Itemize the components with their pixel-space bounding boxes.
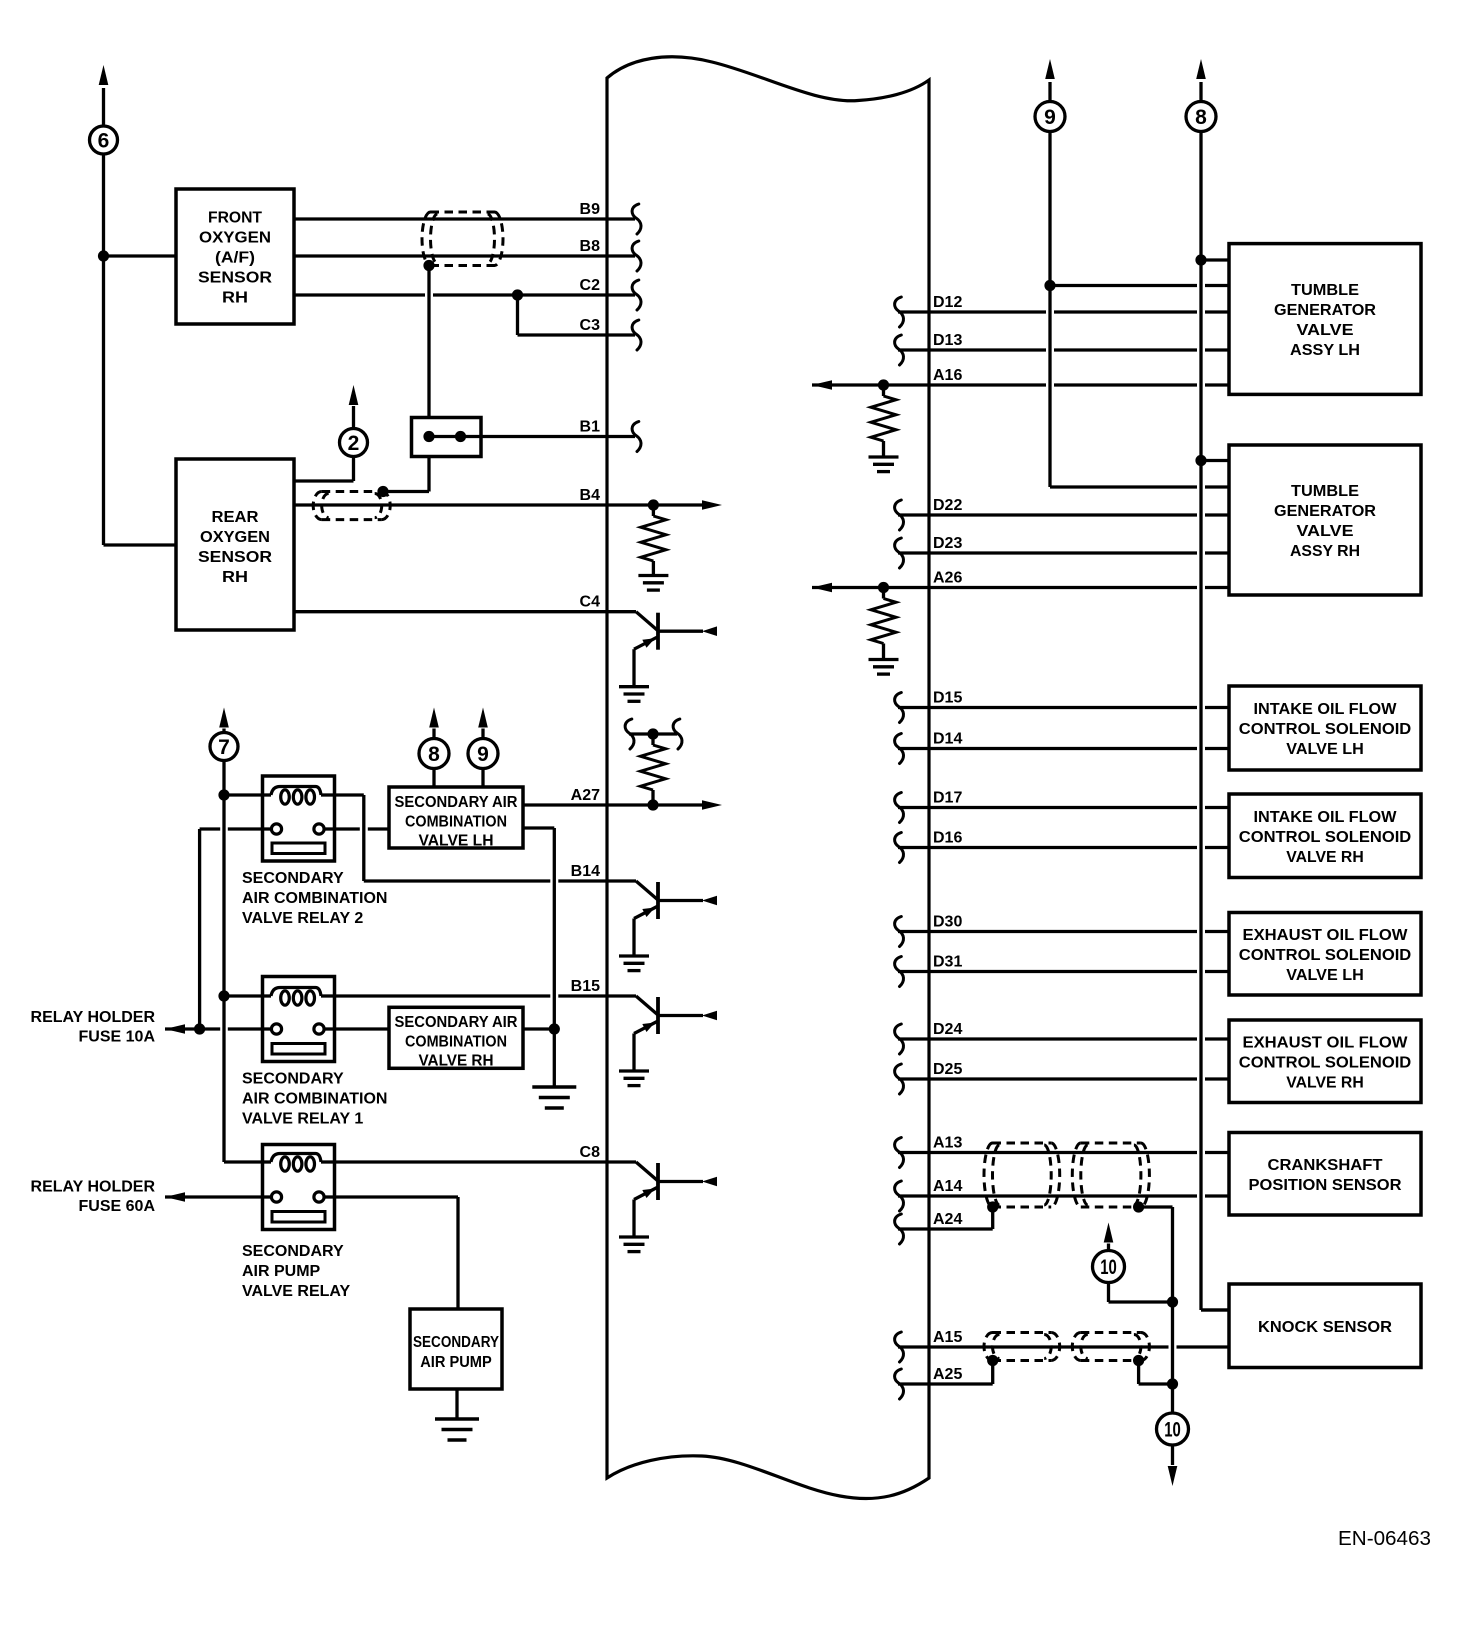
svg-text:10: 10: [1100, 1256, 1117, 1279]
wire relay1 coil to feed: [224, 994, 263, 997]
break mark D12: [895, 297, 904, 327]
ground (air pump): [435, 1419, 479, 1440]
svg-text:COMBINATION: COMBINATION: [405, 814, 507, 831]
break mark D31: [895, 957, 904, 987]
svg-text:VALVE RELAY 2: VALVE RELAY 2: [242, 910, 363, 927]
wire 8-line to knock sensor: [1201, 1308, 1229, 1311]
label INTAKE OIL FLOW CONTROL SOLENOID VALVE LH: [1239, 701, 1412, 758]
break mark D17: [895, 793, 904, 823]
supply line with circled 8: [1201, 82, 1229, 1310]
ground (A16 resistor): [869, 457, 899, 472]
pin label D23: [933, 535, 962, 552]
wire relay2 coil to B14 drop: [335, 795, 364, 881]
svg-text:A15: A15: [933, 1329, 962, 1346]
wire C8 (relay3 coil to ECM): [335, 1160, 637, 1163]
wire D23 (hop): [898, 551, 1229, 554]
break mark A24: [895, 1214, 904, 1244]
svg-text:VALVE RELAY: VALVE RELAY: [242, 1283, 351, 1300]
pin label A14: [933, 1178, 962, 1195]
break mark D15: [895, 693, 904, 723]
node drain to circled 10: [1167, 1296, 1178, 1307]
label TUMBLE GENERATOR VALVE ASSY LH: [1274, 282, 1376, 359]
break mark D23: [895, 538, 904, 568]
box EXHAUST OIL FLOW CONTROL SOLENOID VALVE LH: [1229, 913, 1421, 996]
arrow up (to page 2): [349, 385, 359, 405]
box SECONDARY AIR PUMP: [410, 1309, 502, 1389]
circled 6: [90, 126, 118, 154]
node 9-line to tumble LH: [1044, 280, 1055, 291]
pin label C8: [580, 1144, 601, 1161]
break mark D25: [895, 1064, 904, 1094]
svg-text:D22: D22: [933, 497, 962, 514]
wire C3: [518, 333, 636, 336]
relay SECONDARY AIR PUMP VALVE RELAY: [263, 1145, 335, 1230]
wire B9 (front A/F sensor signal): [294, 217, 635, 220]
ground (B4 resistor): [638, 576, 668, 591]
wire relay holder fuse 10A (hop): [165, 1027, 263, 1030]
svg-text:RELAY HOLDER: RELAY HOLDER: [31, 1179, 156, 1196]
circled 10 (upper): [1093, 1251, 1125, 1283]
wire C2: [294, 293, 635, 296]
wire C4: [294, 610, 636, 613]
supply line with circled 9: [1048, 82, 1051, 487]
label EXHAUST OIL FLOW CONTROL SOLENOID VALVE RH: [1239, 1034, 1412, 1091]
pin label D17: [933, 790, 962, 807]
arrow down (to page 10): [1168, 1466, 1178, 1486]
pin label A15: [933, 1329, 962, 1346]
shield (B9/B8 pair): [422, 212, 503, 266]
wire B15 (relay1 coil to ECM): [335, 994, 637, 997]
svg-text:SECONDARY AIR: SECONDARY AIR: [395, 1014, 518, 1031]
wire 9-line to tumble LH (hop): [1050, 284, 1229, 287]
arrow up (to page 9): [1045, 59, 1055, 79]
pin label B8: [580, 238, 601, 255]
node B4 pull-down: [648, 499, 659, 510]
svg-text:AIR PUMP: AIR PUMP: [420, 1354, 492, 1371]
ground (valve ground rail): [532, 1087, 576, 1108]
wire D25 (hop): [898, 1077, 1229, 1080]
label RELAY HOLDER FUSE 60A: [31, 1179, 156, 1216]
break mark B1: [632, 422, 641, 452]
svg-text:COMBINATION: COMBINATION: [405, 1034, 507, 1051]
svg-text:SECONDARY: SECONDARY: [242, 870, 344, 887]
box TUMBLE GENERATOR VALVE ASSY LH: [1229, 244, 1421, 395]
transistor (B15 driver): [619, 996, 717, 1086]
wire D15 (hop): [898, 706, 1229, 709]
wire REAR sensor to circled 2: [294, 457, 354, 482]
wire B4 (rear O2 signal): [294, 503, 703, 506]
wire A24: [898, 1207, 993, 1229]
arrow right on B4: [702, 500, 722, 510]
wire B14: [364, 879, 636, 882]
pin label D14: [933, 731, 962, 748]
label FRONT OXYGEN (A/F) SENSOR RH: [198, 210, 272, 307]
wire A25: [898, 1361, 993, 1385]
circled 2: [340, 429, 368, 457]
wire air pump to ground: [455, 1389, 458, 1419]
pin label D31: [933, 954, 962, 971]
pin label A25: [933, 1366, 962, 1383]
break mark C2: [632, 280, 641, 310]
shield (A13/A14 section 1): [984, 1143, 1060, 1207]
pin label D16: [933, 830, 962, 847]
pin label D12: [933, 294, 962, 311]
wire to REAR OXYGEN SENSOR: [104, 543, 177, 546]
break mark B8: [632, 241, 641, 271]
svg-text:7: 7: [218, 736, 230, 759]
arrow left on A16: [812, 380, 832, 390]
ECM connector band (torn-edge outline): [607, 57, 929, 1499]
svg-text:SECONDARY AIR: SECONDARY AIR: [395, 794, 518, 811]
svg-text:2: 2: [348, 432, 360, 455]
break mark D22: [895, 500, 904, 530]
svg-text:D15: D15: [933, 690, 962, 707]
label RELAY HOLDER FUSE 10A: [31, 1009, 156, 1046]
relay feed line with circled 7: [224, 729, 263, 1163]
pin label C4: [580, 594, 601, 611]
box TUMBLE GENERATOR VALVE ASSY RH: [1229, 445, 1421, 595]
wire A14 (hop): [898, 1194, 1229, 1197]
figure number EN-06463: [1338, 1528, 1431, 1550]
label SECONDARY AIR PUMP: [413, 1334, 499, 1371]
transistor (C8 driver): [619, 1162, 717, 1252]
svg-text:A13: A13: [933, 1135, 962, 1152]
internal supply stub with break marks: [625, 719, 682, 749]
line below circled 10: [1171, 1445, 1174, 1465]
arrow up (valve LH to 8): [429, 708, 439, 739]
svg-text:A16: A16: [933, 367, 962, 384]
node relay1 coil feed: [218, 990, 229, 1001]
svg-text:CONTROL SOLENOID: CONTROL SOLENOID: [1239, 721, 1412, 738]
circled 9 (above valve LH): [468, 739, 498, 769]
pin label A24: [933, 1211, 962, 1228]
inline connector (joint): [412, 418, 482, 457]
break mark D30: [895, 917, 904, 947]
shield node left (knock): [987, 1355, 998, 1366]
shield (A13/A14 section 2): [1072, 1143, 1149, 1207]
svg-text:C2: C2: [580, 277, 601, 294]
svg-text:GENERATOR: GENERATOR: [1274, 302, 1376, 319]
svg-text:CONTROL SOLENOID: CONTROL SOLENOID: [1239, 829, 1412, 846]
svg-text:A24: A24: [933, 1211, 962, 1228]
svg-text:RELAY HOLDER: RELAY HOLDER: [31, 1009, 156, 1026]
break mark D24: [895, 1024, 904, 1054]
wire relay2 contact to valve LH (hop): [335, 827, 390, 830]
label SECONDARY AIR COMBINATION VALVE RH: [395, 1014, 518, 1070]
wire D16 (hop): [898, 846, 1229, 849]
shield drain node (B4): [377, 486, 388, 497]
svg-text:OXYGEN: OXYGEN: [199, 230, 271, 247]
svg-text:A26: A26: [933, 570, 962, 587]
svg-text:SECONDARY: SECONDARY: [242, 1071, 344, 1088]
pin label C3: [580, 317, 601, 334]
circled 8: [1186, 102, 1216, 132]
connector node left: [423, 431, 434, 442]
svg-text:(A/F): (A/F): [215, 250, 255, 267]
label CRANKSHAFT POSITION SENSOR: [1249, 1157, 1402, 1194]
svg-text:EXHAUST OIL FLOW: EXHAUST OIL FLOW: [1243, 1034, 1409, 1051]
shield node left (crank): [987, 1201, 998, 1212]
pin label B14: [571, 863, 600, 880]
svg-text:D24: D24: [933, 1021, 962, 1038]
label SECONDARY AIR COMBINATION VALVE LH: [395, 794, 518, 850]
box KNOCK SENSOR: [1229, 1284, 1421, 1368]
node A16 pull-down: [878, 379, 889, 390]
pin label D13: [933, 332, 962, 349]
svg-text:D23: D23: [933, 535, 962, 552]
break mark B9: [632, 204, 641, 234]
svg-text:EXHAUST OIL FLOW: EXHAUST OIL FLOW: [1243, 927, 1409, 944]
resistor (A16): [871, 385, 896, 457]
wire 9-line to tumble RH (hop): [1050, 485, 1229, 488]
svg-text:D25: D25: [933, 1061, 962, 1078]
svg-text:OXYGEN: OXYGEN: [200, 529, 270, 546]
svg-text:VALVE RELAY 1: VALVE RELAY 1: [242, 1111, 363, 1128]
node A26 pull-down: [878, 582, 889, 593]
circled 8 (above valve LH): [419, 739, 449, 769]
svg-text:VALVE RH: VALVE RH: [419, 1053, 494, 1070]
svg-text:B8: B8: [580, 238, 601, 255]
node on supply stub: [647, 728, 658, 739]
resistor (B4 pull-down): [641, 505, 666, 576]
svg-text:B15: B15: [571, 978, 600, 995]
svg-text:VALVE: VALVE: [1297, 322, 1354, 339]
arrow left (to relay holder fuse 10A): [165, 1024, 185, 1034]
svg-text:8: 8: [1195, 106, 1207, 129]
arrow left on A26: [812, 583, 832, 593]
arrow up (to page 7): [219, 708, 229, 728]
box REAR OXYGEN SENSOR RH: [176, 459, 294, 630]
box FRONT OXYGEN (A/F) SENSOR RH: [176, 189, 294, 324]
pin label B4: [580, 487, 601, 504]
pin label A26: [933, 570, 962, 587]
wire D30 (hop): [898, 930, 1229, 933]
svg-text:SECONDARY: SECONDARY: [242, 1243, 344, 1260]
wire C2-C3 link: [516, 295, 519, 335]
pin label A13: [933, 1135, 962, 1152]
svg-text:D14: D14: [933, 731, 962, 748]
connector node right: [455, 431, 466, 442]
svg-text:TUMBLE: TUMBLE: [1291, 483, 1359, 500]
svg-text:C8: C8: [580, 1144, 601, 1161]
svg-text:9: 9: [477, 743, 489, 766]
circled 9: [1035, 102, 1065, 132]
label SECONDARY AIR PUMP VALVE RELAY: [242, 1243, 351, 1300]
resistor (A27 pull-up): [641, 734, 666, 805]
svg-text:SENSOR: SENSOR: [198, 270, 272, 287]
svg-text:B14: B14: [571, 863, 600, 880]
pin label B15: [571, 978, 600, 995]
svg-text:A27: A27: [571, 787, 600, 804]
pin label D25: [933, 1061, 962, 1078]
wire A13 (hop): [898, 1151, 1229, 1154]
svg-text:D31: D31: [933, 954, 962, 971]
wire below connector: [383, 457, 429, 492]
svg-text:INTAKE OIL FLOW: INTAKE OIL FLOW: [1254, 701, 1398, 718]
wire A16 (hops): [812, 383, 1229, 386]
node relay2 coil feed: [218, 789, 229, 800]
svg-text:SECONDARY: SECONDARY: [413, 1334, 499, 1351]
svg-text:TUMBLE: TUMBLE: [1291, 282, 1359, 299]
pin label A27: [571, 787, 600, 804]
arrow up (to page 10): [1104, 1223, 1114, 1243]
svg-text:6: 6: [98, 130, 110, 153]
transistor (B14 driver): [619, 881, 717, 971]
svg-text:B1: B1: [580, 419, 601, 436]
svg-text:D16: D16: [933, 830, 962, 847]
break mark C3: [632, 320, 641, 350]
pin label D30: [933, 914, 962, 931]
svg-text:ASSY LH: ASSY LH: [1290, 342, 1360, 359]
shield node right (crank): [1133, 1201, 1144, 1212]
break mark D14: [895, 734, 904, 764]
wire fuse feed drop: [198, 829, 201, 1029]
svg-text:VALVE LH: VALVE LH: [1286, 967, 1364, 984]
svg-text:EN-06463: EN-06463: [1338, 1528, 1431, 1550]
svg-text:ASSY RH: ASSY RH: [1290, 543, 1360, 560]
wire D12 (hops): [898, 310, 1229, 313]
arrow up (to page 8): [1196, 59, 1206, 79]
node C2/C3 tap: [512, 289, 523, 300]
svg-text:VALVE LH: VALVE LH: [419, 833, 494, 850]
wire relay2 coil to feed: [224, 793, 263, 796]
wire to circled 10 (upper): [1109, 1283, 1173, 1303]
svg-text:A14: A14: [933, 1178, 962, 1195]
label SECONDARY AIR COMBINATION VALVE RELAY 1: [242, 1071, 387, 1128]
box INTAKE OIL FLOW CONTROL SOLENOID VALVE RH: [1229, 794, 1421, 878]
arrow up (valve LH to 9): [478, 708, 488, 739]
svg-text:KNOCK SENSOR: KNOCK SENSOR: [1258, 1319, 1392, 1336]
arrow right on A27: [702, 800, 722, 810]
shield node right (knock): [1133, 1355, 1144, 1366]
svg-text:D13: D13: [933, 332, 962, 349]
wire D24 (hop): [898, 1037, 1229, 1040]
svg-text:FUSE 60A: FUSE 60A: [79, 1198, 156, 1215]
break mark A25: [895, 1369, 904, 1399]
node 8-line to tumble RH: [1195, 455, 1206, 466]
node 8-line to tumble LH: [1195, 254, 1206, 265]
svg-text:B4: B4: [580, 487, 601, 504]
wire crank shield to drain rail: [1139, 1207, 1173, 1413]
circled 10 (lower): [1157, 1413, 1189, 1445]
box SECONDARY AIR COMBINATION VALVE LH: [389, 787, 523, 848]
svg-text:C3: C3: [580, 317, 601, 334]
pin label D15: [933, 690, 962, 707]
svg-text:CRANKSHAFT: CRANKSHAFT: [1268, 1157, 1383, 1174]
svg-text:D12: D12: [933, 294, 962, 311]
svg-text:D17: D17: [933, 790, 962, 807]
wire A15 (hop): [898, 1345, 1229, 1348]
box CRANKSHAFT POSITION SENSOR: [1229, 1133, 1421, 1216]
svg-text:8: 8: [428, 743, 440, 766]
label KNOCK SENSOR: [1258, 1319, 1392, 1336]
label SECONDARY AIR COMBINATION VALVE RELAY 2: [242, 870, 387, 927]
break mark A15: [895, 1332, 904, 1362]
svg-text:RH: RH: [222, 569, 248, 586]
relay SECONDARY AIR COMBINATION VALVE RELAY 2: [263, 776, 335, 861]
wire relay1 contact to valve RH: [335, 1027, 390, 1030]
box EXHAUST OIL FLOW CONTROL SOLENOID VALVE RH: [1229, 1020, 1421, 1103]
svg-text:A25: A25: [933, 1366, 962, 1383]
pin label D24: [933, 1021, 962, 1038]
shield drain wire: [427, 266, 430, 418]
wire A26 (hop): [812, 586, 1229, 589]
node valve ground rail: [549, 1023, 560, 1034]
svg-text:POSITION SENSOR: POSITION SENSOR: [1249, 1177, 1402, 1194]
wire valve RH to ground rail: [523, 1027, 554, 1030]
svg-text:CONTROL SOLENOID: CONTROL SOLENOID: [1239, 1054, 1412, 1071]
svg-text:VALVE RH: VALVE RH: [1286, 1074, 1364, 1091]
wire D22 (hop): [898, 513, 1229, 516]
wire D17 (hop): [898, 806, 1229, 809]
box INTAKE OIL FLOW CONTROL SOLENOID VALVE LH: [1229, 686, 1421, 770]
pin label A16: [933, 367, 962, 384]
svg-text:AIR PUMP: AIR PUMP: [242, 1263, 321, 1280]
label INTAKE OIL FLOW CONTROL SOLENOID VALVE RH: [1239, 809, 1412, 866]
svg-text:10: 10: [1164, 1419, 1181, 1442]
circled 7: [210, 733, 238, 761]
line above circled 2: [352, 406, 355, 429]
wire knock shield to drain rail: [1139, 1361, 1173, 1385]
shield (B4): [313, 492, 390, 520]
shield (A15 section 1): [984, 1333, 1060, 1361]
pin label D22: [933, 497, 962, 514]
svg-text:VALVE LH: VALVE LH: [1286, 741, 1364, 758]
relay SECONDARY AIR COMBINATION VALVE RELAY 1: [263, 977, 335, 1062]
wire relay2 contact left (hop): [200, 827, 263, 830]
pin label B9: [580, 201, 601, 218]
valve LH feed lines to circles 8/9: [434, 769, 483, 788]
wire relay3 contact to air pump: [335, 1197, 459, 1309]
svg-text:FRONT: FRONT: [208, 210, 262, 227]
arrow left (to relay holder fuse 60A): [165, 1192, 185, 1202]
label REAR OXYGEN SENSOR RH: [198, 509, 272, 586]
shield drain node: [423, 260, 434, 271]
svg-text:REAR: REAR: [212, 509, 259, 526]
svg-text:VALVE: VALVE: [1297, 523, 1354, 540]
ground (A26 resistor): [869, 660, 899, 675]
wire D13 (hops): [898, 348, 1229, 351]
svg-text:C4: C4: [580, 594, 601, 611]
pin label B1: [580, 419, 601, 436]
arrow up (to page 6): [99, 65, 109, 85]
break mark D13: [895, 335, 904, 365]
svg-text:AIR COMBINATION: AIR COMBINATION: [242, 890, 387, 907]
break mark A13: [895, 1138, 904, 1168]
wire D14 (hop): [898, 747, 1229, 750]
svg-text:SENSOR: SENSOR: [198, 549, 272, 566]
node fuse 10A junction: [194, 1023, 205, 1034]
svg-text:GENERATOR: GENERATOR: [1274, 503, 1376, 520]
svg-text:CONTROL SOLENOID: CONTROL SOLENOID: [1239, 947, 1412, 964]
svg-text:AIR COMBINATION: AIR COMBINATION: [242, 1091, 387, 1108]
wire D31 (hop): [898, 970, 1229, 973]
node drain rail lower: [1167, 1378, 1178, 1389]
break mark A14: [895, 1181, 904, 1211]
wire B8: [294, 254, 635, 257]
wire B1: [461, 435, 636, 438]
svg-text:FUSE 10A: FUSE 10A: [79, 1029, 156, 1046]
wire to FRONT OXYGEN SENSOR: [104, 254, 177, 257]
svg-text:9: 9: [1044, 106, 1056, 129]
power feed line with circled 6: [102, 88, 105, 545]
wire relay holder fuse 60A: [165, 1195, 263, 1198]
wire 8-line to tumble RH: [1201, 459, 1229, 462]
svg-text:RH: RH: [222, 290, 248, 307]
node on A27: [647, 799, 658, 810]
svg-text:INTAKE OIL FLOW: INTAKE OIL FLOW: [1254, 809, 1398, 826]
svg-text:D30: D30: [933, 914, 962, 931]
